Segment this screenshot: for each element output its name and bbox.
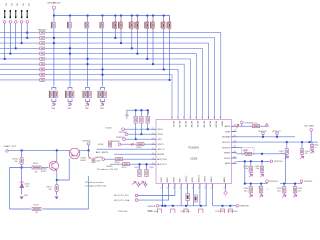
wire riser UPS2016	[300, 182, 302, 184]
wire component drop x=121	[120, 16, 122, 44]
wire riser UPS2015b	[266, 182, 267, 184]
svg-text:5: 5	[153, 148, 154, 150]
pin stub left 3	[152, 138, 157, 140]
svg-text:UPS2012: UPS2012	[83, 141, 92, 143]
svg-text:SHDNZ: SHDNZ	[157, 154, 165, 156]
pin stub left 1	[152, 128, 157, 130]
wire bottom pin x=187.4	[186, 188, 188, 206]
svg-text:VREF: VREF	[221, 121, 223, 127]
svg-text:23: 23	[234, 140, 236, 142]
svg-text:10V: 10V	[26, 186, 30, 188]
svg-text:UPS2017: UPS2017	[272, 131, 281, 133]
capacitor C20xx (DNP) x=153	[150, 21, 154, 29]
svg-text:7: 7	[153, 158, 154, 160]
resistor R2008 vertical	[108, 141, 111, 147]
svg-text:MIC: MIC	[16, 3, 18, 7]
svg-text:I2C pull up resistors: I2C pull up resistors	[85, 181, 103, 184]
svg-text:2: 2	[160, 188, 161, 190]
junction UBATT R2016	[21, 149, 23, 151]
junction pin J5 rail2	[26, 37, 28, 39]
junction UPS2012 rail	[88, 149, 90, 151]
svg-text:SS: SS	[258, 186, 260, 188]
svg-text:PCM1841: PCM1841	[188, 146, 199, 149]
rail W3	[159, 205, 207, 207]
svg-text:GND: GND	[85, 108, 90, 110]
wire NRG_BUILD1 down	[53, 9, 55, 16]
svg-text:4: 4	[201, 117, 202, 119]
svg-text:IOVDD: IOVDD	[224, 158, 231, 160]
svg-text:1LF: 1LF	[305, 153, 308, 155]
junction W3 cap x=200.8	[200, 205, 202, 207]
junction cap C2007 bottom	[147, 128, 149, 130]
svg-text:MICBIAS: MICBIAS	[222, 136, 231, 139]
svg-text:MCU_I2C1_SDA: MCU_I2C1_SDA	[114, 199, 130, 202]
svg-text:2: 2	[179, 188, 180, 190]
svg-text:AREG: AREG	[223, 176, 226, 182]
junction cap C2005 top	[135, 109, 137, 111]
wire C2027 top	[260, 184, 262, 187]
connector pin J2	[10, 10, 11, 18]
svg-text:22: 22	[234, 135, 236, 137]
wire pin J3 to rail	[15, 23, 17, 48]
svg-text:GPIO2: GPIO2	[157, 144, 164, 146]
junction C2028	[283, 183, 285, 185]
capacitor C20xx (DNP) x=137.4	[134, 21, 138, 29]
junction C2029	[294, 183, 296, 185]
junction UBATT Q2003 collector	[56, 149, 58, 151]
pin stub right 5	[232, 146, 237, 148]
terminal row4	[118, 143, 121, 146]
junction drop x=169.6 rail	[169, 79, 171, 81]
pin stub bottom 7	[199, 184, 201, 188]
junction top bus x=115.3	[114, 15, 116, 17]
pin stub right 7	[232, 157, 237, 159]
junction drop x=131.8 rail	[131, 47, 133, 49]
svg-text:UPS2016: UPS2016	[304, 181, 313, 183]
pin stub bottom 9	[211, 184, 213, 188]
stub UPS2015	[262, 135, 264, 137]
wire component drop x=87.5	[87, 16, 89, 87]
svg-text:1: 1	[153, 128, 154, 130]
svg-text:FSYNC: FSYNC	[186, 175, 188, 182]
svg-text:BC817: BC817	[41, 171, 47, 173]
svg-text:MIC2M: MIC2M	[190, 121, 192, 128]
capacitor C2025	[260, 166, 263, 172]
stub UPS2017	[276, 135, 278, 137]
terminal circle pin J3	[14, 21, 17, 24]
svg-text:UPS2011: UPS2011	[119, 132, 128, 134]
wire pin J1 to rail	[4, 23, 6, 59]
diamond off-page pin10	[225, 188, 227, 192]
resistor R2015 horizontal	[22, 167, 32, 169]
junction drop x=70 rail	[69, 53, 71, 55]
svg-text:C2014 100n: C2014 100n	[118, 211, 128, 213]
junction cap C2005 bottom	[135, 138, 137, 140]
terminal row7	[102, 158, 105, 161]
pin arrow group 2	[68, 104, 72, 107]
svg-text:UPS2009: UPS2009	[111, 141, 120, 143]
wire cap bracket	[127, 110, 148, 114]
terminal UREG18D	[236, 205, 239, 208]
pin arrow C2029	[294, 193, 296, 195]
wire Q2003 emitter down	[56, 170, 58, 180]
wire cap C2006 vertical	[140, 110, 142, 134]
junction top bus x=102.5	[102, 15, 104, 17]
junction W3 cap x=165.2	[164, 205, 166, 207]
junction drop x=70 rail	[69, 47, 71, 49]
pin arrow C2024	[250, 172, 252, 174]
wire SCL to IC pin	[138, 188, 175, 196]
pin stub bottom 3	[174, 184, 176, 188]
svg-text:MIC: MIC	[5, 3, 7, 7]
wire pin J4 to rail	[21, 23, 23, 43]
pin arrow group 1	[52, 104, 56, 107]
resistor group4a	[98, 91, 102, 98]
svg-text:R2009: R2009	[137, 147, 142, 149]
junction cap C2006 bottom	[140, 133, 142, 135]
red current arrow right pin1	[237, 124, 239, 128]
svg-text:UPS2015: UPS2015	[258, 131, 267, 133]
ground R2017	[55, 197, 59, 200]
wire D2000 to gnd	[21, 188, 23, 195]
svg-text:CREF: CREF	[225, 131, 231, 133]
wire pin J5 rail1-rail2	[26, 33, 28, 38]
svg-text:ADC_RSTN: ADC_RSTN	[96, 151, 108, 154]
wire bottom pin x=199.9	[199, 188, 201, 206]
wire row5 to IC	[97, 148, 152, 150]
svg-text:BSTVDD: BSTVDD	[222, 147, 231, 149]
transistor Q2003	[49, 161, 58, 170]
resistor group1b	[54, 91, 58, 98]
wire component drop x=147.3	[146, 16, 148, 59]
svg-text:BUI: BUI	[52, 3, 56, 5]
wire bus rail 5 to IC top pin	[0, 54, 196, 120]
divider group 2	[68, 88, 72, 104]
resistor group2b	[70, 91, 74, 98]
wire C2026 top	[250, 184, 252, 187]
svg-text:1u: 1u	[315, 147, 317, 149]
svg-text:GPIO3: GPIO3	[205, 175, 207, 182]
terminal row2	[125, 133, 128, 136]
svg-text:2: 2	[210, 188, 211, 190]
pin arrow group 4	[100, 104, 104, 107]
resistor R2014 on bottom rail	[32, 208, 41, 211]
ferrite L2002	[252, 125, 259, 128]
wire UPS2012 down	[88, 150, 90, 157]
svg-text:MIC: MIC	[21, 3, 23, 7]
wire C2024 top	[250, 161, 252, 166]
svg-text:GINT_S: GINT_S	[157, 149, 165, 151]
wire pin J2 to rail	[9, 23, 11, 54]
pin arrow C2012	[137, 182, 140, 187]
rail W_mid right segment	[280, 183, 300, 185]
connector pin J5	[27, 10, 28, 18]
pin stub left 2	[152, 133, 157, 135]
terminal UPS2014	[241, 121, 244, 124]
transistor Q2002	[69, 148, 80, 159]
resistor group2a	[65, 91, 69, 98]
svg-text:2: 2	[198, 188, 199, 190]
wire R2016 to node	[21, 164, 23, 167]
terminal SDA	[135, 199, 138, 202]
pin stub right 4	[232, 141, 237, 143]
svg-text:100n: 100n	[277, 190, 281, 192]
resistor group4b	[102, 91, 106, 98]
svg-text:UREG18D: UREG18D	[240, 206, 250, 208]
wire C2028 top	[283, 184, 285, 187]
svg-text:20: 20	[234, 125, 236, 127]
svg-text:MIC_BIAS: MIC_BIAS	[305, 125, 315, 128]
svg-text:U2005: U2005	[106, 128, 113, 130]
svg-text:2: 2	[192, 188, 193, 190]
rail W_mid left segment	[245, 183, 266, 185]
junction node D2000	[21, 167, 23, 169]
svg-text:C2009: C2009	[96, 161, 101, 163]
terminal row3	[123, 138, 126, 141]
resistor network RN2001	[40, 31, 45, 81]
svg-text:MOSI: MOSI	[173, 177, 175, 183]
wire L2002 out	[260, 125, 267, 127]
capacitor C2006	[140, 116, 143, 123]
wire C2025 top	[261, 161, 263, 166]
svg-text:2: 2	[153, 133, 154, 135]
pin arrow C2026	[250, 193, 252, 195]
svg-text:ADR_I2C1: ADR_I2C1	[157, 163, 167, 166]
pin arrow C2028	[283, 193, 285, 195]
capacitor C2005	[134, 116, 137, 123]
svg-text:4: 4	[183, 117, 184, 119]
svg-text:C2012: C2012	[134, 167, 139, 169]
svg-text:10k: 10k	[15, 161, 18, 163]
capacitor C2024	[249, 166, 252, 172]
svg-text:MIC1M: MIC1M	[178, 121, 180, 128]
pin stub bottom 6	[193, 184, 195, 188]
IC U2006 PCM1841 body	[156, 120, 232, 184]
wire bus rail 9 to IC top pin	[0, 75, 172, 120]
resistor R2016	[21, 150, 23, 157]
svg-text:GPO0: GPO0	[157, 129, 163, 131]
junction drop x=147.3 rail	[146, 58, 148, 60]
terminal circle pin J5	[26, 21, 29, 24]
svg-text:AVSS: AVSS	[225, 162, 231, 165]
resistor group3b	[87, 91, 91, 98]
svg-text:100n: 100n	[297, 190, 301, 192]
svg-text:25: 25	[234, 151, 236, 153]
junction drop x=121 rail	[120, 42, 122, 44]
pin stub right 8	[232, 162, 237, 164]
svg-text:MIC: MIC	[27, 3, 29, 7]
junction drop x=102.5 rail	[102, 68, 104, 70]
svg-text:RN2001: RN2001	[38, 30, 47, 32]
svg-text:2: 2	[167, 188, 168, 190]
net row1 to pin GPO0	[124, 128, 151, 130]
capacitor C2026	[249, 187, 252, 193]
capacitor C2029	[293, 187, 296, 193]
pin arrow group 3	[85, 104, 89, 107]
capacitor C20xx (DNP) x=163.7	[161, 21, 165, 29]
terminal MIC_BIAS	[310, 129, 313, 132]
junction drop x=53.9 rail	[53, 37, 55, 39]
svg-text:R2011: R2011	[122, 167, 127, 169]
capacitor C2012	[138, 169, 141, 176]
wire row5 short	[237, 146, 242, 148]
svg-text:C2013: C2013	[149, 167, 154, 169]
pin stub bottom 5	[186, 184, 188, 188]
pin arrow C2027	[260, 193, 262, 195]
pin stub right 6	[232, 152, 237, 154]
resistor R20xx x=70	[67, 22, 71, 29]
pin stub left 8	[152, 163, 157, 165]
capacitor C2013	[145, 169, 148, 176]
svg-text:GND: GND	[51, 108, 56, 110]
terminal circle pin J4	[20, 21, 23, 24]
svg-text:MISO: MISO	[167, 177, 169, 183]
wire SDA to IC pin	[138, 188, 169, 201]
svg-text:MIC1P: MIC1P	[172, 121, 174, 128]
junction drop x=137.4 rail	[136, 53, 138, 55]
wire component drop x=153	[152, 16, 154, 65]
wire bus rail 6 to IC top pin	[0, 59, 190, 120]
connector pin J3	[15, 10, 16, 18]
wire bottom pin x=193.65	[193, 188, 195, 206]
wire bottom pin x=206.15	[205, 188, 207, 206]
junction C2013	[146, 163, 148, 165]
wire bus rail 10	[0, 79, 170, 81]
wire component drop x=102.5	[102, 16, 104, 87]
svg-text:100n: 100n	[256, 168, 260, 170]
capacitor C20xx (DNP) x=121	[118, 21, 122, 29]
pin arrow C2013	[144, 182, 147, 187]
net row8 W1	[237, 160, 271, 162]
junction drop x=163.7 rail	[163, 68, 165, 70]
resistor R2017	[56, 180, 58, 185]
bottom cap stubs + labels	[157, 209, 161, 214]
junction pin J3	[15, 47, 17, 49]
wire cap C2012 top	[139, 164, 141, 169]
capacitor C2007	[146, 116, 149, 123]
pin stub left 6	[152, 153, 157, 155]
wire bottom rail right	[43, 176, 89, 209]
junction top bus x=53.9	[53, 15, 55, 17]
ground D2000	[20, 197, 24, 200]
junction top bus x=163.7	[163, 15, 165, 17]
terminal SCL	[135, 194, 138, 197]
net row3	[125, 138, 151, 140]
svg-text:GND: GND	[68, 108, 73, 110]
terminal UPS2015	[262, 132, 265, 135]
net row8	[110, 163, 152, 165]
junction top bus x=137.4	[136, 15, 138, 17]
svg-text:MIC4M: MIC4M	[215, 121, 217, 128]
svg-text:3: 3	[153, 138, 154, 140]
terminal UPS2016	[300, 180, 303, 183]
wire IC pin1 to W3	[161, 188, 163, 206]
junction cap C2006 top	[140, 109, 142, 111]
junction C2012	[139, 163, 141, 165]
junction drop x=87.5 rail	[87, 63, 89, 65]
wire emitter to Q2002 collector	[57, 159, 70, 180]
svg-text:2: 2	[185, 188, 186, 190]
svg-text:C2016 100n: C2016 100n	[180, 211, 190, 213]
pin stub bottom 8	[205, 184, 207, 188]
wire bus rail 3 to IC top pin	[0, 43, 209, 119]
pin stub bottom 2	[168, 184, 170, 188]
resistor R20xx x=87.5	[85, 22, 89, 29]
junction drop x=53.9 rail	[53, 42, 55, 44]
rail W4 right	[213, 205, 236, 207]
terminal UPS2012	[87, 142, 90, 145]
svg-text:R2015: R2015	[33, 163, 38, 165]
terminal U2005 row1	[122, 128, 125, 131]
junction drop x=115.3 rail	[114, 37, 116, 39]
svg-text:BCLK: BCLK	[192, 176, 194, 182]
ferrite L2001	[194, 195, 197, 202]
resistor R20xx x=53.9	[51, 22, 55, 29]
capacitor C2028	[283, 187, 286, 193]
wire component drop x=131.8	[131, 16, 133, 49]
pin stub right 1	[232, 125, 237, 127]
terminal NRG_BUILD1	[52, 6, 55, 9]
net row4 with series resistor	[121, 143, 152, 145]
wire UBATT rail	[9, 149, 89, 151]
wire bus rail 7 to IC top pin	[0, 64, 184, 119]
svg-text:MIC3M: MIC3M	[202, 121, 204, 128]
capacitor C2020	[311, 142, 313, 145]
junction W3 cap x=172.8	[172, 205, 174, 207]
svg-text:4: 4	[177, 117, 178, 119]
wire bracket to gnd	[126, 113, 128, 116]
net row2	[128, 133, 152, 135]
terminal circle pin J1	[3, 21, 6, 24]
svg-text:C2017 100n: C2017 100n	[215, 211, 225, 213]
wire row8 down to W_mid	[244, 161, 246, 183]
capacitor C20xx (DNP) x=115.3	[112, 21, 116, 29]
svg-text:UBATT_FILT: UBATT_FILT	[4, 145, 17, 148]
svg-text:100n: 100n	[244, 190, 248, 192]
wire bottom pin x=212.4	[211, 188, 213, 206]
capacitor C2023	[301, 142, 303, 149]
pin stub bottom 1	[161, 184, 163, 188]
connector pin J4	[21, 10, 22, 18]
terminal circle pin J2	[9, 21, 12, 24]
pin arrow UPS row1	[265, 123, 268, 126]
wire bus rail 1 to IC top pin	[0, 33, 221, 120]
resistor group1a	[49, 91, 53, 98]
dashed DNP box C2019	[242, 148, 255, 155]
svg-text:4: 4	[153, 143, 154, 145]
junction drop x=87.5 rail	[87, 58, 89, 60]
svg-text:GND: GND	[100, 108, 105, 110]
junction C2027	[260, 183, 262, 185]
svg-text:C2021: C2021	[243, 151, 248, 153]
svg-text:4: 4	[208, 117, 209, 119]
svg-text:4: 4	[220, 117, 221, 119]
svg-text:4: 4	[189, 117, 190, 119]
divider group 1	[52, 88, 56, 104]
divider group 4	[101, 88, 105, 104]
DNP marks near note	[132, 182, 144, 185]
junction top bus x=147.3	[146, 15, 148, 17]
wire C2029 top	[294, 184, 296, 187]
capacitor C20xx (DNP) x=147.3	[144, 21, 148, 29]
wire component drop x=70	[69, 16, 71, 87]
svg-text:UA1V8D: UA1V8D	[95, 156, 103, 159]
terminal UBATT_FILT diamond	[5, 149, 8, 152]
wire cap C2005 vertical	[135, 110, 137, 139]
wire component drop x=163.7	[163, 16, 165, 70]
svg-text:UPS2010: UPS2010	[116, 137, 125, 139]
resistor R2010	[116, 158, 123, 161]
